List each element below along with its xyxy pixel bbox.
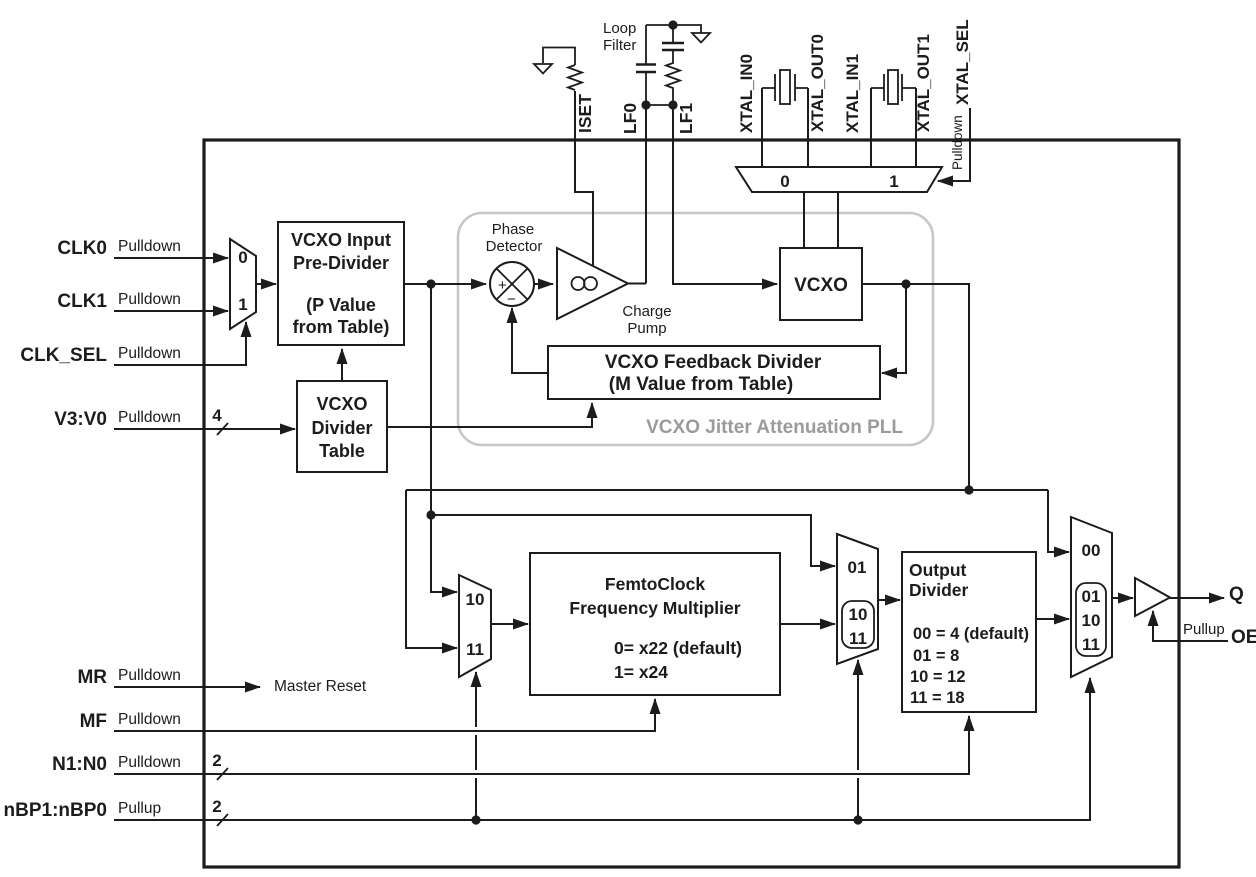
wire XTAL_OUT0 pin [807,88,809,167]
capacitor C1 on LF0 [645,25,647,65]
wire divider table to pre-divider [341,349,343,381]
block VCXO Feedback Divider [548,346,880,399]
wire CLK0 [114,257,228,259]
charge pump U2 [557,248,628,319]
wire select to mux M2 (with crossover gap) [857,778,859,820]
svg-text:Loop: Loop [603,20,636,37]
svg-text:2: 2 [212,751,221,770]
wire LF0-LF1 tie [646,104,673,106]
svg-text:01: 01 [1082,587,1101,606]
svg-text:CLK0: CLK0 [57,238,107,259]
junction nBP/M1 [471,815,480,824]
svg-text:nBP1:nBP0: nBP1:nBP0 [4,800,107,821]
mux M3 00/01/10/11 [1071,517,1112,677]
svg-text:11: 11 [849,629,867,648]
svg-text:2: 2 [212,797,221,816]
wire xtal mux to VCXO (left) [803,192,805,248]
capacitor C2 on LF1 [672,25,674,43]
svg-text:10 = 12: 10 = 12 [910,668,966,686]
svg-text:Pulldown: Pulldown [118,345,181,362]
wire select to mux M1 (with crossover gaps) [475,778,477,820]
svg-text:0: 0 [780,172,789,191]
svg-text:Detector: Detector [486,238,543,255]
wire to mux M3 input 00 [1048,490,1069,552]
svg-text:Pulldown: Pulldown [118,291,181,308]
svg-text:LF1: LF1 [676,103,696,134]
wire V3:V0 [114,428,295,430]
svg-text:VCXO Feedback Divider: VCXO Feedback Divider [605,352,822,373]
svg-text:10: 10 [1082,611,1101,630]
junction nBP/M2 [853,815,862,824]
svg-text:00 = 4 (default): 00 = 4 (default) [913,625,1029,643]
bus slash 2 [217,768,228,780]
svg-text:1: 1 [889,172,898,191]
wire CLK_SEL [114,322,246,365]
svg-text:LF0: LF0 [620,103,640,134]
svg-text:Pump: Pump [627,320,666,337]
svg-text:Master Reset: Master Reset [274,678,367,695]
block Output Divider [902,552,1036,712]
mux M2 01/10/11 [837,534,878,664]
svg-text:VCXO: VCXO [316,394,367,414]
svg-text:XTAL_OUT1: XTAL_OUT1 [914,34,933,132]
svg-text:4: 4 [212,406,222,425]
wire pre-divider output node A [404,283,486,285]
svg-text:VCXO Input: VCXO Input [291,230,391,250]
svg-text:XTAL_IN0: XTAL_IN0 [737,54,756,133]
output buffer U3 [1135,578,1170,616]
svg-text:Output: Output [909,560,967,580]
wire ISET into chip to charge pump [575,91,593,265]
svg-text:XTAL_SEL: XTAL_SEL [953,19,972,105]
wire feedback divider to phase detector [512,308,548,373]
svg-text:11: 11 [1082,635,1100,654]
wire mux M2 output [878,599,900,601]
wire node A to mux M2 input 01 [431,515,835,566]
svg-text:FemtoClock: FemtoClock [605,574,705,594]
svg-text:Filter: Filter [603,37,636,54]
wire OE to buffer [1153,611,1228,641]
resistor R2 on LF1 [666,50,680,105]
svg-text:00: 00 [1082,541,1101,560]
svg-text:CLK1: CLK1 [57,291,107,312]
svg-text:Pulldown: Pulldown [950,115,965,170]
wire Output Divider output [1036,618,1069,620]
svg-text:Frequency Multiplier: Frequency Multiplier [569,598,740,618]
svg-text:MR: MR [77,667,107,688]
svg-text:Divider: Divider [311,418,372,438]
mux CLK0/CLK1 [230,239,256,329]
svg-text:Pulldown: Pulldown [118,667,181,684]
block VCXO [780,248,862,320]
svg-text:OE: OE [1231,627,1256,648]
svg-text:Divider: Divider [909,580,969,600]
svg-text:+: + [498,277,507,294]
wire XTAL_OUT1 pin [915,88,917,167]
wire node A down to mux M1 input 10 [431,284,457,592]
svg-text:10: 10 [849,605,868,624]
mux XTAL 0/1 [736,167,942,192]
junction node A [426,279,435,288]
svg-text:1= x24: 1= x24 [614,662,668,682]
pin ISET resistor R1 [568,65,582,90]
svg-text:01 = 8: 01 = 8 [913,647,959,665]
wire phase detector to charge pump [534,283,553,285]
wire VCXO clock distribution [406,489,1048,491]
ground loop filter [692,33,710,43]
wire XTAL_SEL to mux [938,108,970,181]
svg-text:Table: Table [319,441,365,461]
svg-text:1: 1 [238,295,247,314]
chip outer border [204,140,1179,867]
svg-text:ISET: ISET [575,94,595,133]
junction LF1 [668,100,677,109]
wire CLK1 [114,310,228,312]
svg-text:11: 11 [466,640,484,659]
svg-text:Pulldown: Pulldown [118,754,181,771]
wire MF [114,699,655,731]
svg-text:Pullup: Pullup [1183,621,1225,638]
wire divider table to feedback divider [387,403,592,427]
wire mux M1 output [491,623,528,625]
wire LF0 pin into chip [645,105,647,284]
svg-text:MF: MF [80,711,107,732]
wire nBP1:nBP0 [114,678,1090,820]
svg-text:01: 01 [848,558,867,577]
wire LF1 pin into chip to VCXO [673,105,777,284]
wire Q output [1170,597,1224,599]
bus slash 2 [217,814,228,826]
VCXO Jitter Attenuation PLL grey rounded box [458,213,933,445]
svg-text:Phase: Phase [492,221,535,238]
junction VCXO clock line [964,485,973,494]
svg-text:CLK_SEL: CLK_SEL [20,345,107,366]
svg-text:11 = 18: 11 = 18 [910,689,965,707]
wire to mux M1 input 11 [406,490,457,648]
wire XTAL_IN1 pin [870,88,872,167]
svg-text:Pre-Divider: Pre-Divider [293,253,389,273]
svg-text:(P Value: (P Value [306,295,376,315]
svg-text:N1:N0: N1:N0 [52,754,107,775]
svg-text:XTAL_IN1: XTAL_IN1 [843,54,862,133]
svg-text:10: 10 [466,590,485,609]
svg-text:VCXO: VCXO [794,275,848,296]
junction VCXO output [901,279,910,288]
svg-text:(M Value from Table): (M Value from Table) [609,374,793,395]
svg-text:Pullup: Pullup [118,800,161,817]
wire loop filter top rail [646,25,701,33]
wire mux M3 output [1112,597,1133,599]
svg-text:0= x22 (default): 0= x22 (default) [614,638,742,658]
svg-text:XTAL_OUT0: XTAL_OUT0 [808,34,827,132]
svg-text:Pulldown: Pulldown [118,409,181,426]
svg-text:V3:V0: V3:V0 [54,409,107,430]
junction LF0 [641,100,650,109]
wire MR [114,686,260,688]
svg-text:Charge: Charge [622,303,671,320]
wire xtal mux to VCXO (right) [837,192,839,248]
junction top rail LF1 [668,20,677,29]
junction node A lower [426,510,435,519]
svg-text:Pulldown: Pulldown [118,711,181,728]
block VCXO Divider Table [297,381,387,472]
svg-text:VCXO Jitter Attenuation PLL: VCXO Jitter Attenuation PLL [646,417,903,438]
block FemtoClock Frequency Multiplier [530,553,780,695]
wire VCXO output to feedback divider [882,284,906,373]
wire FemtoClock output [780,623,835,625]
crystal Y1 [871,74,916,101]
phase detector U1 [490,262,534,306]
block VCXO Input Pre-Divider [278,222,404,345]
wire ISET to ground [543,48,575,66]
svg-text:from Table): from Table) [293,317,390,337]
wire clk mux output [256,283,276,285]
svg-text:Pulldown: Pulldown [118,238,181,255]
crystal Y0 [762,74,808,101]
svg-text:Q: Q [1229,584,1244,605]
mux M1 10/11 [459,575,491,677]
wire N1:N0 [114,716,969,774]
svg-text:−: − [507,291,516,308]
wire charge pump output to LF0 [628,283,646,285]
wire XTAL_IN0 pin [761,88,763,167]
ground ISET [534,64,552,74]
wire VCXO output [862,284,969,490]
svg-text:0: 0 [238,248,247,267]
bus slash 4 [217,423,228,435]
